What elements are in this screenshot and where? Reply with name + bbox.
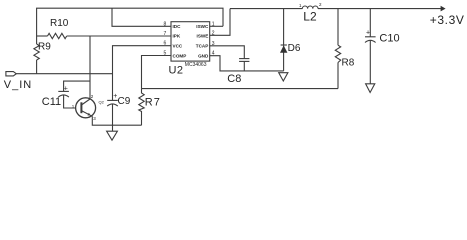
svg-text:+: + — [64, 86, 68, 93]
svg-text:IPK: IPK — [173, 34, 181, 39]
wire gnd row right — [142, 88, 339, 90]
wire output rail — [230, 8, 302, 10]
wire pin 8 riser — [112, 8, 171, 26]
wire R10 to pin 7 — [67, 35, 171, 37]
svg-text:2: 2 — [91, 94, 94, 99]
wire emitter down — [92, 116, 141, 125]
wire left rail lower — [36, 60, 38, 74]
svg-text:C9: C9 — [118, 96, 131, 107]
diode D6 — [281, 44, 287, 46]
wire C11 to base — [64, 95, 76, 108]
svg-text:C10: C10 — [379, 33, 399, 45]
svg-text:+: + — [366, 30, 370, 37]
svg-text:C11: C11 — [42, 96, 61, 108]
IC U2 body — [171, 22, 210, 61]
svg-text:1: 1 — [212, 21, 215, 27]
svg-text:R8: R8 — [342, 58, 355, 69]
svg-text:2: 2 — [212, 30, 215, 36]
ground under D6 node — [279, 73, 288, 81]
svg-text:4: 4 — [212, 51, 215, 57]
svg-text:+3.3V: +3.3V — [430, 13, 465, 27]
capacitor C9 — [107, 99, 118, 101]
resistor R10 — [48, 33, 67, 38]
svg-text:ISWE: ISWE — [197, 34, 209, 39]
svg-text:3: 3 — [93, 116, 96, 121]
svg-text:U2: U2 — [169, 65, 184, 77]
wire output rail right — [318, 8, 441, 10]
wire pin 3 to C8 — [210, 46, 245, 59]
svg-text:R10: R10 — [50, 18, 69, 29]
wire D6 riser — [283, 9, 285, 45]
wire C9 lower lead — [112, 104, 114, 131]
wire C10 lower — [369, 40, 371, 83]
resistor R8 — [335, 45, 340, 62]
svg-text:1: 1 — [299, 3, 302, 8]
wire pin 2 riser — [210, 9, 230, 36]
svg-text:R9: R9 — [38, 42, 51, 53]
capacitor C11 top stub — [64, 81, 90, 91]
arrow +3.3V — [441, 6, 446, 12]
capacitor C11 — [58, 90, 69, 92]
wire R8 lower — [337, 63, 339, 89]
svg-text:8: 8 — [164, 21, 167, 27]
svg-text:7: 7 — [164, 31, 167, 37]
svg-text:VCC: VCC — [173, 44, 183, 49]
ground under C10 — [366, 84, 375, 93]
svg-text:MC34063: MC34063 — [185, 62, 207, 68]
svg-text:6: 6 — [164, 41, 167, 47]
wire V_IN row — [16, 73, 112, 75]
svg-text:TCAP: TCAP — [196, 44, 209, 49]
wire pin 4 to gnd node — [210, 56, 284, 71]
svg-text:2: 2 — [319, 2, 322, 7]
svg-text:C8: C8 — [227, 73, 241, 85]
svg-text:D6: D6 — [288, 43, 301, 54]
wire R8 riser — [337, 9, 339, 46]
wire top rail left (to pin 1) — [37, 8, 223, 44]
svg-text:V_IN: V_IN — [4, 79, 32, 91]
svg-text:Q2: Q2 — [99, 100, 105, 105]
ground under C9 — [107, 131, 118, 140]
svg-text:ISWC: ISWC — [196, 24, 209, 29]
inductor L2 — [302, 6, 318, 9]
wire pin 5 riser — [142, 56, 172, 89]
svg-text:COMP: COMP — [173, 53, 187, 58]
port V_IN — [6, 72, 16, 76]
svg-text:5: 5 — [164, 51, 167, 57]
wire pin 6 riser / C9 riser — [113, 46, 172, 101]
svg-text:IDC: IDC — [173, 24, 182, 29]
transistor Q2 — [76, 98, 96, 118]
svg-text:L2: L2 — [303, 10, 317, 24]
svg-text:3: 3 — [212, 41, 215, 47]
resistor R7 — [139, 89, 144, 126]
wire pin 1 — [210, 25, 223, 27]
wire C10 riser — [369, 9, 371, 37]
capacitor C10 — [365, 36, 376, 38]
svg-text:R7: R7 — [145, 96, 161, 108]
capacitor C8 — [239, 58, 249, 60]
resistor R9 — [34, 44, 39, 60]
wire collector riser — [89, 36, 91, 99]
wire pin 7 / R10 row — [37, 35, 48, 37]
svg-text:GND: GND — [198, 53, 209, 58]
